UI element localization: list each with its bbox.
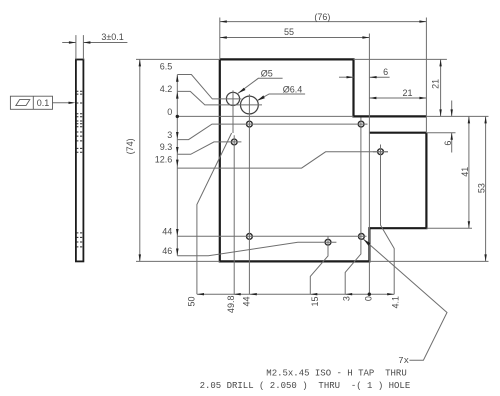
ordinate origin dot (row 0) — [176, 115, 179, 118]
tapped hole T5 (44,44) — [247, 234, 253, 240]
(76) dimension line — [220, 21, 427, 23]
21 horizontal dimension line — [369, 97, 426, 99]
svg-text:49.8: 49.8 — [226, 296, 236, 314]
bottom row arrows — [197, 293, 204, 295]
svg-text:3±0.1: 3±0.1 — [101, 32, 123, 42]
right ext y=228.2 — [426, 227, 472, 229]
ordinate col 15 bent line — [310, 236, 328, 294]
arrowheads — [69, 20, 487, 296]
Ø5 leader — [238, 78, 283, 93]
leader row 12.6 — [177, 152, 388, 168]
53 arrows — [484, 116, 486, 123]
svg-text:0.1: 0.1 — [37, 98, 50, 108]
55 dimension line — [220, 37, 370, 39]
svg-text:3: 3 — [167, 130, 172, 140]
ordinate col 4.1 bent line — [381, 145, 395, 295]
leader row 9.3 — [177, 142, 241, 154]
6 horizontal dim right segment — [370, 76, 390, 78]
svg-text:6: 6 — [443, 141, 453, 146]
flatness frame leader — [53, 102, 73, 104]
part outline (front view) — [220, 59, 427, 261]
tapped hole T6 (3,44) — [359, 234, 365, 240]
53 dimension line — [485, 116, 487, 261]
svg-text:12.6: 12.6 — [155, 154, 173, 164]
41 dimension line — [468, 116, 470, 228]
note text block — [200, 369, 411, 391]
3±0.1 dim line right — [83, 42, 127, 44]
svg-text:4.1: 4.1 — [391, 296, 401, 309]
flatness leader arrow — [69, 102, 76, 104]
row 0 line — [177, 115, 353, 117]
Ø6.4 leader — [257, 94, 305, 101]
svg-text:6.5: 6.5 — [160, 61, 173, 71]
row 44 line — [177, 235, 366, 237]
leader row 46 — [177, 242, 336, 256]
41 arrows — [468, 116, 470, 123]
(74) top extension line — [136, 58, 220, 60]
bottom origin dot (col 0) — [368, 293, 371, 296]
Ø6.4 leader arrow — [257, 95, 265, 100]
tapped hole T2 (3,3) — [358, 121, 364, 127]
svg-text:44: 44 — [162, 226, 172, 236]
55 / ordinate-0 extension line — [368, 34, 370, 295]
(74) arrows — [139, 59, 141, 66]
side view hidden hole lines — [76, 91, 83, 247]
right ext y=116.4 — [426, 115, 488, 117]
leader 4.2 — [177, 91, 262, 105]
ordinate col 44 / circle centerline — [248, 94, 250, 294]
leader row 3 — [177, 124, 367, 140]
hole Ø5 — [226, 92, 239, 105]
right ext y=261.4 — [369, 260, 488, 262]
svg-text:0: 0 — [167, 107, 172, 117]
6 vertical dim upper segment — [451, 101, 453, 117]
tapped hole T4 (-4.1,12.6) — [378, 149, 384, 155]
ordinate col 49.8 — [233, 135, 235, 294]
svg-text:9.3: 9.3 — [160, 142, 173, 152]
svg-text:Ø6.4: Ø6.4 — [283, 85, 303, 95]
right ext y=132.7 — [426, 132, 455, 134]
21 vertical dimension line — [440, 59, 442, 116]
svg-text:7x: 7x — [398, 356, 409, 366]
flatness feature control frame — [10, 96, 52, 109]
flatness symbol — [16, 100, 30, 106]
bottom ordinate dimension row — [197, 293, 394, 295]
svg-text:46: 46 — [162, 246, 172, 256]
21 vertical arrows — [439, 59, 441, 66]
7x leader — [364, 239, 448, 360]
side view plate — [76, 60, 84, 262]
(76)/55 left extension line — [219, 18, 221, 60]
55 arrows — [220, 36, 227, 38]
top edge right extension line — [354, 58, 447, 60]
(74) bottom extension line — [136, 260, 220, 262]
7x leader arrow — [364, 239, 371, 246]
svg-text:2.05 DRILL ( 2.050 ) THRU -(: 2.05 DRILL ( 2.050 ) THRU -( 1 ) HOLE — [200, 381, 411, 391]
svg-text:53: 53 — [477, 183, 487, 193]
3±0.1 arrows — [69, 41, 76, 43]
svg-text:21: 21 — [402, 88, 412, 98]
svg-text:3: 3 — [342, 296, 352, 301]
6 horizontal arrows — [347, 76, 354, 78]
svg-text:41: 41 — [460, 167, 470, 177]
svg-text:6: 6 — [383, 67, 388, 77]
hole T4 horizontal centerline — [373, 151, 388, 153]
svg-text:(74): (74) — [125, 138, 135, 154]
6 vertical dim lower segment — [451, 133, 453, 153]
svg-text:44: 44 — [242, 296, 252, 306]
svg-text:(76): (76) — [314, 12, 330, 22]
svg-text:15: 15 — [310, 296, 320, 306]
svg-text:55: 55 — [284, 27, 294, 37]
svg-text:M2.5x.45 ISO - H TAP THRU: M2.5x.45 ISO - H TAP THRU — [266, 369, 406, 379]
3±0.1 extension lines — [75, 35, 77, 59]
svg-text:50: 50 — [187, 296, 197, 306]
leader 6.5 — [177, 75, 241, 99]
6 horizontal dim left segment — [339, 76, 354, 78]
Ø5 leader arrow — [238, 88, 246, 94]
ordinate baseline arrows — [176, 75, 179, 82]
ordinate col 3 bent line — [345, 118, 361, 295]
tapped hole T3 (49.8,9.3) — [231, 139, 237, 145]
ordinate col 50 bent line — [197, 90, 233, 294]
tapped hole T7 (15,46) — [325, 239, 331, 245]
svg-text:0: 0 — [364, 296, 374, 301]
tapped hole T1 (44,3) — [247, 121, 253, 127]
ordinate baseline (left) — [176, 75, 178, 256]
(76) right extension line — [425, 18, 427, 133]
6 vertical arrows — [451, 109, 453, 116]
internal step edge — [369, 132, 426, 134]
(76) arrows — [220, 20, 227, 22]
(74) dimension line — [139, 59, 141, 261]
21 horizontal arrows — [369, 97, 376, 99]
svg-text:Ø5: Ø5 — [261, 69, 273, 79]
svg-text:4.2: 4.2 — [160, 84, 173, 94]
svg-text:21: 21 — [431, 79, 441, 89]
hole Ø6.4 — [241, 96, 259, 114]
3±0.1 dim line left — [62, 42, 76, 44]
